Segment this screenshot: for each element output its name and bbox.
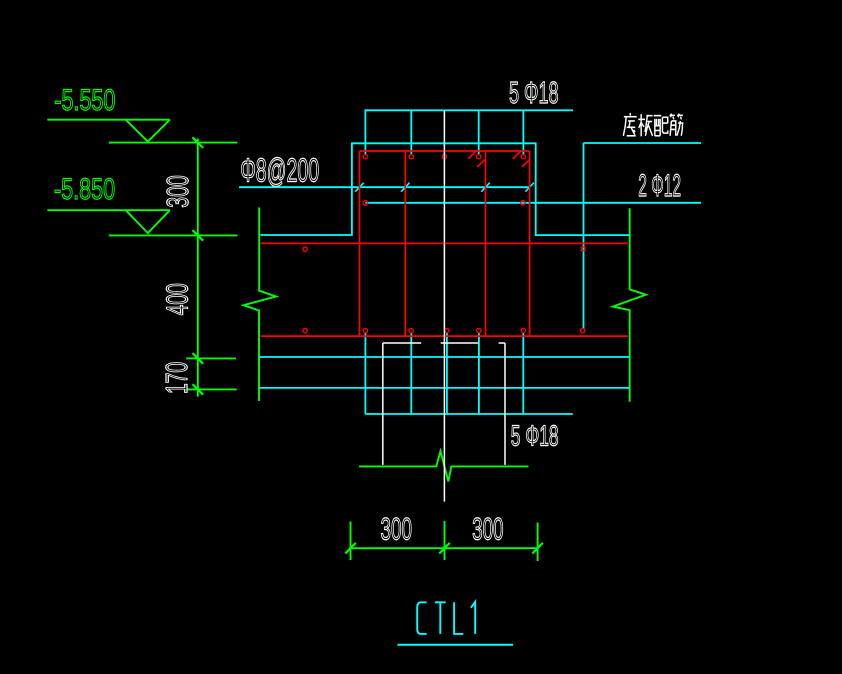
stirrup vertical x=485.5 xyxy=(485,151,487,336)
bottom bar dropper x=411.3 xyxy=(410,333,412,414)
center line xyxy=(443,111,445,502)
hat top dash 1 xyxy=(383,342,421,344)
dimension tick at y=235.4 xyxy=(193,230,204,241)
waist bar circle x=365.4 xyxy=(363,201,367,205)
beam step outline xyxy=(260,143,629,235)
dimension tick at y=358.4 xyxy=(193,353,204,364)
stirrup leader tick x=359.5 xyxy=(355,183,363,192)
svg-text:5 Φ18: 5 Φ18 xyxy=(511,420,559,453)
hat top dash 2 xyxy=(441,342,479,344)
stirrup vertical x=405.3 xyxy=(404,151,406,336)
svg-text:5 Φ18: 5 Φ18 xyxy=(509,76,559,110)
right break line xyxy=(613,208,646,402)
svg-text:300: 300 xyxy=(472,510,503,546)
waist bar circle x=522.8 xyxy=(521,201,525,205)
svg-text:400: 400 xyxy=(161,283,195,315)
hat top dash 3 xyxy=(499,342,505,344)
bottom bar dropper x=446.9 xyxy=(446,333,448,414)
stirrup hook slash B at x=523.4 xyxy=(522,160,529,167)
bottom bar circle x=523.3 xyxy=(521,328,525,332)
bottom dim tick at x=537.6 xyxy=(532,543,542,554)
stirrup leader tick x=405.3 xyxy=(401,183,409,192)
dimension tick at y=142.6 xyxy=(193,137,204,148)
stirrup leader phi8@200 xyxy=(239,186,530,188)
elevation -5.550 triangle xyxy=(126,120,170,142)
top bar leader line 5phi18 xyxy=(365,109,573,111)
vertical dimension line xyxy=(197,139,199,397)
beam top red line xyxy=(261,242,628,244)
bottom bar circle x=305.0 xyxy=(303,328,307,332)
label dibanpeijin char ban xyxy=(638,114,652,136)
elevation -5.850 extension line xyxy=(109,234,238,236)
top bar circle x=478.7 xyxy=(477,154,481,158)
dimension tick at y=389.4 xyxy=(193,384,204,395)
hat right side xyxy=(504,343,506,465)
slab rebar leader horizontal xyxy=(584,142,702,144)
top bar circle x=411.3 xyxy=(409,154,413,158)
title CTL1 xyxy=(417,602,475,634)
title underline xyxy=(398,644,514,646)
bottom dim extension left xyxy=(350,522,352,561)
stirrup vertical x=359.5 xyxy=(359,151,361,336)
bottom bar circle x=365.4 xyxy=(363,328,367,332)
elevation -5.550 extension line xyxy=(109,142,238,144)
bottom bar circle x=582.7 xyxy=(581,328,585,332)
top bar dropper x=478.7 xyxy=(478,110,480,155)
bottom dim tick at x=350.5 xyxy=(345,543,355,554)
svg-text:170: 170 xyxy=(161,362,195,394)
stirrup hook slash A at x=478.7 xyxy=(468,151,476,159)
svg-text:-5.550: -5.550 xyxy=(54,85,115,117)
bottom bar dropper x=523.3 xyxy=(522,333,524,414)
stirrup vertical x=529.6 xyxy=(529,151,531,336)
top bar dropper x=411.3 xyxy=(410,110,412,155)
elevation -5.550 level line xyxy=(47,119,170,121)
bottom bar dropper x=365.4 xyxy=(364,333,366,414)
stirrup hook slash B at x=478.7 xyxy=(477,160,484,167)
top bar dropper x=365.4 xyxy=(364,110,366,155)
waist bar leader 2phi12 xyxy=(365,202,701,204)
elevation -5.850 level line xyxy=(47,209,170,211)
bottom break line xyxy=(359,451,528,481)
slab bottom line xyxy=(259,387,630,389)
bottom dim extension right xyxy=(537,523,539,562)
left waist bar circle xyxy=(303,247,307,251)
svg-text:Φ8@200: Φ8@200 xyxy=(240,151,319,189)
bottom bar circle x=411.1 xyxy=(409,328,413,332)
svg-text:300: 300 xyxy=(162,175,195,208)
hat left side xyxy=(382,343,384,465)
beam bottom red line xyxy=(261,335,628,337)
top bar circle x=444.3 xyxy=(442,154,446,158)
bottom dimension line xyxy=(351,547,538,549)
top bar circle x=365.4 xyxy=(363,154,367,158)
bottom bar circle x=446.9 xyxy=(445,328,449,332)
slab rebar leader vertical xyxy=(583,143,585,329)
label dibanpeijin char pei xyxy=(654,116,668,136)
top bar circle x=523.4 xyxy=(521,154,525,158)
slab leader square marker xyxy=(581,247,585,251)
bottom dim extension middle xyxy=(444,521,446,560)
slab top line xyxy=(259,356,630,358)
bottom bar circle x=478.9 xyxy=(477,328,481,332)
label dibanpeijin char jin xyxy=(670,114,684,136)
top bar dropper x=523.4 xyxy=(522,110,524,155)
svg-text:2 Φ12: 2 Φ12 xyxy=(638,168,681,204)
bottom bar dropper x=478.9 xyxy=(478,333,480,414)
elevation -5.850 triangle xyxy=(126,210,170,233)
svg-text:300: 300 xyxy=(381,510,412,546)
stirrup top line xyxy=(360,150,530,152)
bottom dim tick at x=444.5 xyxy=(439,543,449,554)
label dibanpeijin char di xyxy=(623,113,636,136)
extension line slab top xyxy=(186,357,236,359)
bottom bar bend line xyxy=(365,413,572,415)
left break line xyxy=(244,208,277,402)
stirrup leader tick x=529.6 xyxy=(525,183,533,192)
stirrup leader tick x=485.5 xyxy=(481,183,489,192)
extension line slab bottom xyxy=(187,388,236,390)
svg-text:-5.850: -5.850 xyxy=(54,174,115,206)
stirrup hook slash A at x=523.4 xyxy=(513,151,521,159)
